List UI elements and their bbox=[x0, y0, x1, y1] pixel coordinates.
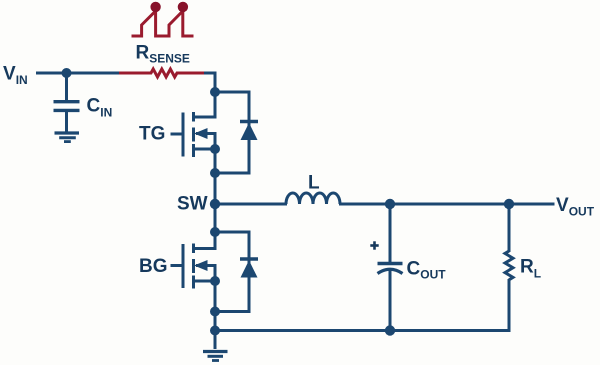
BG drain stub bbox=[194, 232, 216, 249]
inductor L bbox=[286, 193, 340, 204]
node: TG diode return junction bbox=[210, 168, 220, 178]
TG channel segment (drain) bbox=[192, 112, 195, 122]
node: VOUT junction bbox=[504, 199, 514, 209]
wire: RL down to ground bus corner bbox=[388, 279, 509, 331]
node: TG source junction bbox=[210, 144, 220, 154]
node: BG diode return junction bbox=[210, 307, 220, 317]
TG body stub bbox=[196, 134, 215, 150]
TG body arrow bbox=[194, 128, 208, 139]
capacitor CIN bbox=[54, 73, 80, 132]
node: ground bus junction bbox=[210, 326, 220, 336]
wire: SW to inductor bbox=[215, 203, 287, 206]
BG body stub bbox=[196, 266, 215, 282]
BG body arrow bbox=[194, 260, 208, 271]
BG gate bar bbox=[182, 244, 185, 288]
wire: TG source down to SW bbox=[214, 149, 217, 204]
wire: ground bus bbox=[215, 329, 390, 332]
TG channel segment (body) bbox=[192, 128, 195, 142]
svg-text:SW: SW bbox=[177, 194, 208, 215]
node: TG drain / body-diode junction bbox=[210, 87, 220, 97]
TG gate lead bbox=[171, 133, 184, 136]
node: COUT top junction bbox=[385, 199, 395, 209]
plus sign (COUT polarity) bbox=[370, 241, 378, 249]
wire: VOUT node down to RL bbox=[508, 204, 511, 252]
ground (CIN) bbox=[55, 133, 80, 142]
wire: sense resistor to top rail corner bbox=[204, 73, 215, 118]
ground (main) bbox=[203, 352, 228, 361]
node: COUT bottom junction bbox=[385, 325, 395, 335]
TG source stub bbox=[194, 148, 216, 151]
body diode of TG: cathode bar bbox=[240, 120, 258, 123]
inductor current waveform icon bbox=[132, 11, 194, 36]
svg-text:L: L bbox=[308, 173, 320, 194]
node: BG source junction bbox=[210, 276, 220, 286]
capacitor COUT: top plate bbox=[378, 262, 403, 265]
transistor TG (top-gate MOSFET) bbox=[171, 92, 216, 157]
waveform peak dot 2 bbox=[178, 2, 188, 12]
body diode of BG: branch wire bbox=[215, 232, 249, 312]
TG gate bar bbox=[182, 113, 185, 157]
node: VIN/CIN junction bbox=[62, 68, 72, 78]
wire: BG source down to ground bbox=[214, 281, 217, 349]
transistor BG (bottom-gate MOSFET) bbox=[171, 232, 216, 289]
waveform peak dot 1 bbox=[150, 2, 160, 12]
TG channel segment (source) bbox=[192, 144, 195, 157]
svg-text:BG: BG bbox=[139, 256, 168, 277]
BG channel segment (source) bbox=[192, 276, 195, 289]
svg-text:TG: TG bbox=[139, 124, 165, 145]
wire: VIN to sense resistor bbox=[36, 72, 122, 75]
BG channel segment (body) bbox=[192, 259, 195, 273]
body diode of TG: branch wire bbox=[215, 92, 249, 173]
BG channel segment (drain) bbox=[192, 244, 195, 254]
node SW bbox=[210, 199, 220, 209]
body diode of BG: triangle bbox=[241, 260, 258, 277]
node: BG drain / body-diode junction bbox=[210, 227, 220, 237]
body diode of TG: triangle bbox=[241, 123, 258, 140]
sense resistor RSENSE bbox=[119, 69, 206, 77]
wire: SW rail down to BG drain bbox=[214, 204, 217, 250]
TG drain stub bbox=[194, 92, 216, 117]
capacitor COUT: curved bottom plate bbox=[378, 269, 403, 273]
body diode of BG: cathode bar bbox=[240, 257, 258, 260]
capacitor COUT: top stem bbox=[389, 204, 392, 262]
resistor RL bbox=[505, 251, 513, 280]
wire: inductor to VOUT bbox=[339, 203, 555, 206]
capacitor COUT: bottom stem bbox=[389, 271, 392, 331]
BG source stub bbox=[194, 280, 216, 283]
BG gate lead bbox=[171, 264, 184, 267]
